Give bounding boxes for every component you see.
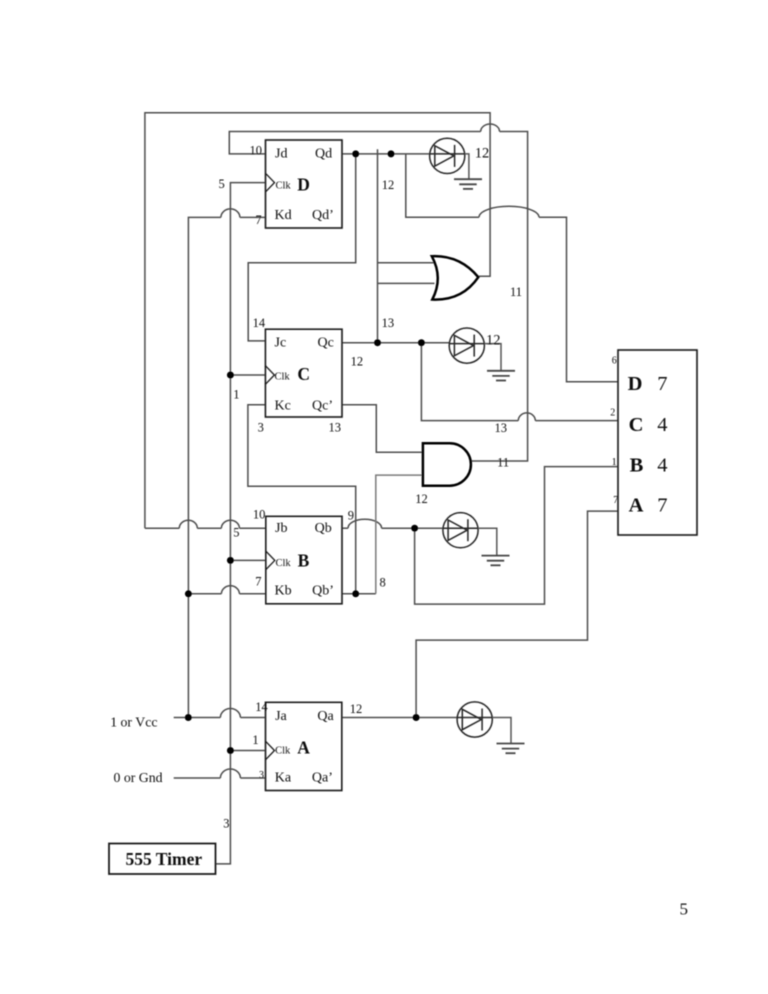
svg-text:6: 6 <box>612 356 617 367</box>
svg-text:A: A <box>297 737 310 757</box>
svg-text:Qc: Qc <box>318 336 334 351</box>
svg-text:4: 4 <box>657 455 667 477</box>
svg-text:Qa’: Qa’ <box>312 771 333 786</box>
svg-text:11: 11 <box>510 285 522 299</box>
svg-text:14: 14 <box>255 700 268 714</box>
svg-text:12: 12 <box>415 492 428 506</box>
svg-text:Clk: Clk <box>276 558 292 569</box>
svg-text:10: 10 <box>253 508 266 522</box>
svg-text:1 or Vcc: 1 or Vcc <box>110 715 157 730</box>
svg-text:Qc’: Qc’ <box>312 398 333 413</box>
svg-text:D: D <box>297 174 310 194</box>
svg-text:5: 5 <box>680 900 689 919</box>
svg-text:D: D <box>628 373 643 395</box>
svg-text:B: B <box>630 455 644 477</box>
svg-text:2: 2 <box>610 408 615 419</box>
svg-text:13: 13 <box>329 421 342 435</box>
svg-text:3: 3 <box>258 421 264 435</box>
svg-text:Ja: Ja <box>275 709 287 724</box>
svg-text:11: 11 <box>497 455 509 469</box>
svg-text:Kc: Kc <box>275 398 291 413</box>
svg-text:7: 7 <box>255 213 261 227</box>
svg-text:12: 12 <box>382 178 395 192</box>
svg-text:Kb: Kb <box>275 583 292 598</box>
svg-text:0 or Gnd: 0 or Gnd <box>114 770 163 785</box>
svg-text:10: 10 <box>250 144 263 158</box>
svg-text:13: 13 <box>382 316 395 330</box>
svg-text:C: C <box>297 364 310 384</box>
svg-text:1: 1 <box>612 457 617 468</box>
svg-text:B: B <box>298 550 310 570</box>
svg-text:9: 9 <box>348 509 354 523</box>
svg-text:1: 1 <box>252 733 258 747</box>
svg-text:Clk: Clk <box>275 371 291 382</box>
svg-text:7: 7 <box>255 574 261 588</box>
svg-text:Qa: Qa <box>317 709 334 724</box>
svg-text:1: 1 <box>233 388 239 402</box>
svg-text:C: C <box>629 414 644 436</box>
svg-text:Jd: Jd <box>275 147 287 162</box>
svg-text:7: 7 <box>657 495 667 517</box>
svg-text:Qd’: Qd’ <box>312 208 334 223</box>
svg-text:3: 3 <box>259 770 264 781</box>
svg-text:555 Timer: 555 Timer <box>126 849 203 869</box>
svg-text:7: 7 <box>657 373 667 395</box>
svg-text:7: 7 <box>613 495 618 506</box>
svg-text:Kd: Kd <box>275 208 292 223</box>
svg-text:8: 8 <box>380 576 386 590</box>
svg-text:A: A <box>629 495 644 517</box>
svg-text:12: 12 <box>351 354 364 368</box>
svg-text:Qd: Qd <box>315 147 332 162</box>
svg-text:Qb’: Qb’ <box>312 583 334 598</box>
svg-text:4: 4 <box>657 414 667 436</box>
svg-text:3: 3 <box>223 817 229 831</box>
svg-text:5: 5 <box>219 177 225 191</box>
svg-text:12: 12 <box>475 146 490 162</box>
svg-text:13: 13 <box>495 421 508 435</box>
svg-text:14: 14 <box>253 316 266 330</box>
svg-text:12: 12 <box>486 333 501 349</box>
svg-text:Ka: Ka <box>275 771 292 786</box>
svg-text:Jc: Jc <box>275 336 287 351</box>
svg-text:Jb: Jb <box>275 521 287 536</box>
svg-text:5: 5 <box>233 526 239 540</box>
svg-text:Clk: Clk <box>276 181 292 192</box>
svg-text:Clk: Clk <box>275 745 291 756</box>
svg-text:12: 12 <box>350 702 363 716</box>
svg-text:Qb: Qb <box>315 521 332 536</box>
